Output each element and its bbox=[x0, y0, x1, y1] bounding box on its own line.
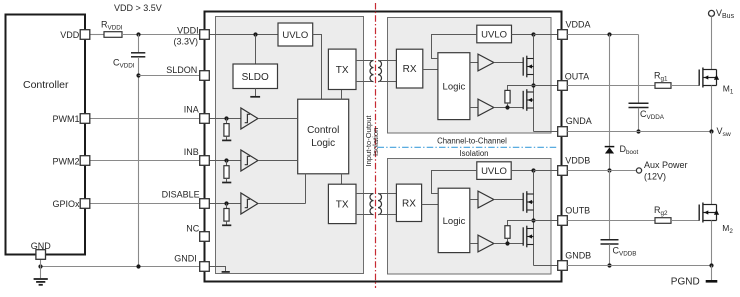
transformer T1 primary winding bbox=[370, 61, 374, 82]
wire RX2 top lead bbox=[378, 193, 396, 195]
node Dboot top junction bbox=[607, 32, 611, 36]
svg-text:SLDO: SLDO bbox=[242, 72, 269, 83]
wire VDDA rail down bbox=[533, 35, 535, 132]
svg-text:Channel-to-Channel: Channel-to-Channel bbox=[437, 136, 507, 145]
pin OUTB bbox=[558, 205, 591, 225]
pin PWM1 bbox=[53, 114, 90, 125]
transformer T1 secondary winding bbox=[378, 61, 382, 82]
diode Dboot bbox=[605, 144, 639, 156]
wire OUTB net bbox=[567, 220, 655, 222]
pin INB bbox=[184, 147, 210, 165]
node DISABLE pulldown junction bbox=[224, 201, 228, 205]
pin SLDON bbox=[166, 65, 209, 80]
node Dboot bottom junction bbox=[607, 168, 611, 172]
pin GNDB bbox=[558, 251, 592, 271]
wire resistor to gate net bbox=[507, 103, 509, 108]
transistor QA2 low-side bbox=[523, 89, 533, 111]
svg-text:RX: RX bbox=[403, 64, 417, 75]
pin OUTA bbox=[558, 72, 589, 91]
wire DISABLE to buffer bbox=[209, 203, 241, 205]
TX U-TX2 box bbox=[328, 184, 356, 223]
svg-text:GPIOx: GPIOx bbox=[52, 199, 80, 209]
wire control logic to DISABLE net bbox=[305, 174, 307, 204]
RX U-RX2 box bbox=[396, 184, 421, 221]
wire logic A to driver A2 bbox=[470, 107, 478, 109]
wire TX2 top lead bbox=[356, 193, 374, 195]
svg-text:RX: RX bbox=[402, 199, 416, 210]
wire down to SLDO bbox=[255, 35, 257, 65]
svg-text:VDDA: VDDA bbox=[566, 19, 591, 29]
wire RX1 to logic bbox=[423, 69, 438, 71]
svg-text:CVDDI: CVDDI bbox=[113, 58, 135, 70]
node SLDON junction bbox=[136, 73, 140, 77]
UVLO B box bbox=[477, 162, 511, 180]
svg-text:TX: TX bbox=[336, 199, 349, 210]
svg-text:DISABLE: DISABLE bbox=[162, 189, 200, 199]
resistor INA pulldown bbox=[224, 124, 229, 137]
wire GND rail to GNDI bbox=[41, 266, 200, 268]
wire VDDB to pin bbox=[534, 170, 558, 172]
buffer DISABLE schmitt bbox=[241, 193, 258, 214]
node GND pin junction bbox=[38, 264, 42, 268]
pin DISABLE bbox=[162, 189, 210, 208]
node PGND junction bbox=[709, 263, 713, 267]
node OUTB junction bbox=[531, 218, 535, 222]
svg-text:Dboot: Dboot bbox=[620, 144, 639, 156]
wire CVDDI down to ground rail bbox=[138, 57, 140, 267]
wire driver A1 to gate bbox=[494, 62, 523, 64]
node VDDB rail junction bbox=[531, 168, 535, 172]
pin PWM2 bbox=[53, 156, 90, 167]
transistor QB2 low-side bbox=[523, 226, 533, 248]
op-amp driver A2 bbox=[478, 99, 494, 116]
wire GNDI internal bbox=[209, 267, 225, 272]
transistor M1 bbox=[699, 68, 719, 88]
wire INB buffer to control logic bbox=[258, 160, 298, 162]
wire CVDDB branch bbox=[609, 171, 611, 240]
ground DISABLE tick bbox=[222, 224, 231, 226]
wire GNDA Vsw rail bbox=[567, 131, 711, 133]
svg-text:VDDB: VDDB bbox=[565, 155, 590, 165]
svg-text:GND: GND bbox=[31, 241, 52, 251]
wire VDDB rail down bbox=[533, 171, 535, 266]
wire GNDB to pin bbox=[534, 265, 558, 267]
node VDDI internal junction bbox=[253, 32, 257, 36]
svg-text:INB: INB bbox=[184, 147, 199, 157]
node OUTA junction bbox=[531, 83, 535, 87]
node INB pulldown junction bbox=[224, 158, 228, 162]
node CVDDA bottom junction bbox=[636, 129, 640, 133]
wire INA to buffer bbox=[209, 118, 241, 120]
svg-text:CVDDA: CVDDA bbox=[640, 109, 665, 121]
svg-text:M2: M2 bbox=[722, 223, 733, 235]
resistor B pull bbox=[505, 226, 510, 239]
wire logic A to driver A1 bbox=[470, 62, 478, 64]
wire UVLO to control logic bbox=[313, 35, 322, 100]
resistor DISABLE pulldown bbox=[224, 209, 229, 222]
wire to tick bbox=[226, 221, 228, 225]
node gate B2 junction bbox=[505, 241, 509, 245]
wire VDDA to CVDDA bbox=[638, 35, 640, 104]
pin GNDI bbox=[174, 253, 209, 271]
resistor RVDDI bbox=[104, 32, 122, 38]
buffer INA schmitt bbox=[241, 108, 258, 129]
wire RX2 to logic bbox=[422, 204, 439, 206]
pin VDDA bbox=[558, 19, 591, 39]
transistor QB1 high-side bbox=[523, 191, 533, 213]
svg-text:GNDB: GNDB bbox=[565, 251, 591, 261]
node gate A2 junction bbox=[505, 105, 509, 109]
wire OUTA to pull resistor bbox=[508, 86, 534, 91]
wire OUTB to pull resistor bbox=[508, 221, 534, 226]
wire VBus to M1 drain bbox=[711, 16, 713, 69]
pin GND bbox=[31, 241, 52, 259]
svg-text:VDD: VDD bbox=[60, 30, 80, 40]
transistor M2 bbox=[699, 203, 719, 223]
svg-text:Isolation: Isolation bbox=[459, 149, 488, 158]
svg-text:Isolation: Isolation bbox=[371, 128, 380, 156]
wire INB pulldown bbox=[226, 161, 228, 166]
wire VDDA net bbox=[567, 34, 638, 36]
svg-text:SLDON: SLDON bbox=[166, 65, 197, 75]
svg-text:OUTB: OUTB bbox=[565, 205, 590, 215]
ground SLDO tick bbox=[250, 96, 260, 98]
wire TX1 bottom lead bbox=[356, 81, 374, 83]
svg-text:INA: INA bbox=[184, 104, 199, 114]
svg-text:Aux Power: Aux Power bbox=[644, 160, 688, 170]
gate driver IC outer box bbox=[205, 12, 562, 282]
wire driver B1 to gate bbox=[494, 199, 523, 201]
pin GPIOx bbox=[52, 199, 89, 210]
capacitor CVDDI bbox=[131, 53, 145, 57]
wire RVDDI to VDDI pin bbox=[122, 34, 200, 36]
wire INA pulldown bbox=[226, 119, 228, 124]
wire UVLO A to VDDA rail bbox=[512, 34, 534, 36]
wire to tick bbox=[226, 178, 228, 182]
wire SLDON bbox=[139, 75, 200, 77]
transistor QA1 high-side bbox=[523, 56, 533, 78]
wire RX1 bottom lead bbox=[378, 81, 396, 83]
resistor INB pulldown bbox=[224, 166, 229, 179]
node VDDA rail junction bbox=[531, 32, 535, 36]
svg-text:UVLO: UVLO bbox=[282, 30, 308, 41]
svg-text:Logic: Logic bbox=[443, 216, 466, 227]
svg-text:(3.3V): (3.3V) bbox=[173, 36, 198, 46]
wire resistor to gate net bbox=[507, 238, 509, 243]
svg-text:GNDI: GNDI bbox=[174, 253, 197, 263]
transformer T2 secondary winding bbox=[378, 194, 382, 215]
wire CVDDB to GNDB rail bbox=[609, 244, 611, 265]
wire OUTA to pin bbox=[534, 85, 558, 87]
input die gray block bbox=[216, 17, 364, 274]
op-amp driver B2 bbox=[478, 235, 494, 252]
wire INA buffer to control logic bbox=[258, 118, 298, 120]
pin INA bbox=[184, 104, 210, 123]
wire M2 source to PGND bbox=[711, 221, 713, 266]
wire OUTB to pin bbox=[534, 220, 558, 222]
channel A die gray block bbox=[388, 18, 552, 134]
wire driver A2 to gate bbox=[494, 107, 523, 109]
pin VDDB bbox=[558, 155, 591, 175]
pin GNDA bbox=[558, 116, 592, 136]
ground INB tick bbox=[222, 182, 231, 184]
wire VDDI pin to UVLO bbox=[209, 34, 278, 36]
svg-text:Logic: Logic bbox=[443, 82, 466, 93]
svg-text:VBus: VBus bbox=[716, 8, 735, 20]
wire TX2 bottom lead bbox=[356, 214, 374, 216]
svg-text:TX: TX bbox=[336, 65, 349, 76]
logic B box bbox=[438, 188, 470, 252]
RX U-RX1 box bbox=[396, 49, 422, 88]
node GND rail junction bbox=[136, 264, 140, 268]
wire Rg2 to M2 gate bbox=[671, 220, 699, 222]
svg-text:Rg2: Rg2 bbox=[654, 205, 668, 217]
svg-text:VDDI: VDDI bbox=[177, 25, 199, 35]
svg-text:RVDDI: RVDDI bbox=[101, 20, 123, 32]
wire UVLO A to logic A bbox=[432, 35, 477, 59]
wire Vsw to M2 drain bbox=[711, 132, 713, 205]
capacitor CVDDA bbox=[629, 103, 649, 107]
wire PGND stub bbox=[711, 266, 713, 281]
svg-text:OUTA: OUTA bbox=[565, 72, 589, 82]
svg-text:CVDDB: CVDDB bbox=[613, 246, 637, 258]
wire VDDA to pin bbox=[534, 34, 558, 36]
svg-text:Rg1: Rg1 bbox=[654, 70, 668, 82]
channel isolation blue line bbox=[378, 146, 557, 148]
wire TX1 to control logic bbox=[341, 90, 343, 100]
ground GNDI tick bbox=[222, 271, 230, 273]
wire GNDA to pin bbox=[534, 131, 558, 133]
wire INB to buffer bbox=[209, 160, 241, 162]
node VBus terminal bbox=[709, 8, 735, 20]
channel B die gray block bbox=[388, 159, 552, 275]
wire PWM1 to INA bbox=[90, 118, 200, 120]
svg-text:Controller: Controller bbox=[23, 79, 69, 91]
wire M1 source to Vsw bbox=[711, 86, 713, 132]
wire DISABLE pulldown bbox=[226, 204, 228, 209]
op-amp SLDO box bbox=[233, 64, 278, 89]
pin VDDI bbox=[173, 25, 209, 46]
capacitor CVDDB bbox=[601, 240, 619, 244]
svg-text:VDD > 3.5V: VDD > 3.5V bbox=[114, 3, 162, 13]
svg-text:PGND: PGND bbox=[671, 276, 700, 287]
node Vsw bbox=[709, 126, 731, 138]
svg-text:UVLO: UVLO bbox=[481, 29, 507, 40]
resistor Rg2 bbox=[655, 218, 671, 224]
op-amp driver B1 bbox=[478, 191, 494, 208]
ground controller earth symbol bbox=[34, 279, 48, 285]
wire PWM2 to INB bbox=[90, 160, 200, 162]
wire logic B to driver B2 bbox=[470, 243, 478, 245]
wire logic B to driver B1 bbox=[470, 199, 478, 201]
svg-text:PWM1: PWM1 bbox=[53, 114, 80, 124]
wire Dboot to aux rail bbox=[609, 154, 611, 171]
wire VDDB aux net bbox=[567, 170, 635, 172]
svg-text:PWM2: PWM2 bbox=[53, 156, 80, 166]
svg-text:M1: M1 bbox=[723, 84, 734, 96]
wire UVLO B to VDDB rail bbox=[511, 170, 533, 172]
svg-text:Control: Control bbox=[307, 125, 339, 136]
wire driver B2 to gate bbox=[494, 243, 523, 245]
svg-text:UVLO: UVLO bbox=[481, 166, 507, 177]
node CVDDB bottom junction bbox=[607, 263, 611, 267]
wire GND pin down bbox=[40, 259, 42, 278]
svg-text:(12V): (12V) bbox=[644, 171, 666, 181]
wire down to CVDDI bbox=[138, 35, 140, 53]
wire to tick bbox=[226, 136, 228, 140]
UVLO A box bbox=[477, 25, 512, 43]
ground PGND bar bbox=[706, 280, 718, 283]
wire GNDB PGND rail bbox=[567, 265, 711, 267]
wire RX2 bottom lead bbox=[378, 214, 396, 216]
node Aux Power terminal bbox=[636, 160, 687, 182]
svg-text:NC: NC bbox=[186, 224, 199, 234]
wire UVLO B to logic B bbox=[432, 171, 477, 194]
controller box bbox=[6, 15, 86, 255]
ground INA tick bbox=[222, 139, 231, 141]
wire GPIOx to DISABLE bbox=[90, 203, 200, 205]
wire SLDO to internal ground bbox=[255, 89, 257, 97]
pin NC bbox=[186, 224, 209, 242]
op-amp driver A1 bbox=[478, 54, 494, 71]
resistor A pull bbox=[505, 90, 510, 103]
TX U-TX1 box bbox=[328, 49, 356, 89]
wire Dboot branch bbox=[609, 35, 611, 147]
control logic box bbox=[298, 99, 349, 174]
isolation barrier red line bbox=[375, 3, 377, 288]
logic A box bbox=[438, 53, 470, 120]
wire OUTA net bbox=[567, 85, 655, 87]
wire DISABLE buffer to control logic bbox=[258, 203, 305, 205]
svg-text:Logic: Logic bbox=[311, 138, 335, 149]
wire TX1 top lead bbox=[356, 60, 374, 62]
wire control logic to TX2 bbox=[341, 174, 343, 184]
svg-text:Vsw: Vsw bbox=[717, 126, 731, 138]
wire Rg1 to M1 gate bbox=[671, 85, 699, 87]
wire RX1 top lead bbox=[378, 60, 396, 62]
svg-text:GNDA: GNDA bbox=[566, 116, 592, 126]
node VDD net junction bbox=[136, 32, 140, 36]
node INA pulldown junction bbox=[224, 116, 228, 120]
buffer INB schmitt bbox=[241, 150, 258, 171]
resistor Rg1 bbox=[655, 83, 671, 89]
pin VDD bbox=[60, 30, 90, 40]
wire CVDDA to GNDA rail bbox=[638, 108, 640, 132]
transformer T2 primary winding bbox=[370, 194, 374, 215]
wire VDD pin to RVDDI bbox=[90, 34, 104, 36]
UVLO U-in box bbox=[278, 23, 313, 46]
